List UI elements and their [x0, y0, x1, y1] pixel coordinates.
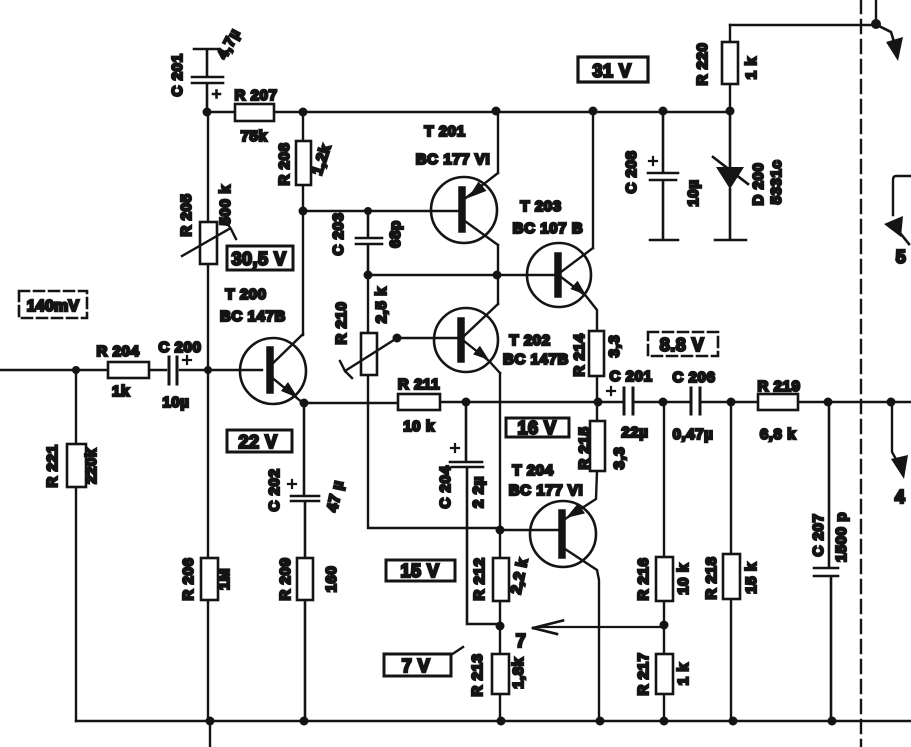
capacitor C201 series [624, 388, 633, 414]
node output C207 [824, 398, 833, 407]
resistor R215 [596, 402, 598, 421]
resistor R206 [201, 558, 218, 600]
svg-text:R 207: R 207 [234, 87, 277, 104]
resistor R219 [758, 394, 798, 410]
capacitor C203 [356, 211, 382, 275]
node R216 R217 [660, 621, 669, 630]
arrow output 4 off-page [892, 402, 897, 461]
node input junction [72, 366, 80, 374]
node top right [871, 19, 881, 29]
resistor R205 (variable) [200, 222, 217, 264]
resistor R218 [723, 554, 740, 599]
svg-text:31 V: 31 V [592, 61, 631, 81]
node base T200 [204, 366, 212, 374]
svg-text:T 200: T 200 [225, 286, 266, 303]
svg-text:C 201: C 201 [169, 53, 186, 96]
svg-text:R 212: R 212 [471, 557, 488, 600]
wire R216 R217 chain [663, 402, 665, 721]
wire ground stub below rail [209, 721, 211, 747]
resistor R204 [108, 362, 149, 378]
arrow 5 off-page [893, 176, 911, 215]
svg-text:R 211: R 211 [398, 376, 440, 393]
node T200 emitter [300, 399, 309, 408]
svg-text:C 204: C 204 [437, 465, 454, 508]
node ground dots [206, 717, 837, 726]
wire input line [0, 369, 262, 371]
svg-text:220k: 220k [83, 448, 100, 484]
svg-text:C 208: C 208 [623, 150, 640, 193]
transistor T202 [434, 308, 498, 372]
wire R218 [730, 402, 732, 721]
svg-text:BC 147B: BC 147B [503, 351, 569, 368]
label box 22V [227, 430, 292, 452]
svg-text:R 208: R 208 [276, 142, 293, 185]
arrow node 7 [540, 626, 664, 628]
svg-text:BC 177 VI: BC 177 VI [509, 482, 584, 499]
svg-text:R 219: R 219 [757, 378, 800, 395]
node R210 wiper [393, 334, 402, 343]
transistor T201 [431, 177, 497, 243]
svg-text:10 k: 10 k [675, 563, 692, 595]
wire top right [730, 0, 876, 25]
svg-text:R 210: R 210 [333, 301, 350, 344]
svg-text:4: 4 [895, 487, 906, 507]
capacitor C204 [450, 402, 500, 624]
wire R210 chain [368, 275, 500, 528]
svg-text:22 V: 22 V [238, 432, 277, 452]
svg-text:10µ: 10µ [685, 179, 702, 206]
svg-text:1,8k: 1,8k [510, 657, 527, 689]
svg-text:R 205: R 205 [178, 193, 195, 236]
label box 7V [384, 654, 451, 676]
svg-text:140mV: 140mV [27, 298, 80, 315]
ground rail (bottom) [76, 720, 911, 722]
wire output line [304, 402, 911, 403]
node C201 bottom [203, 108, 212, 117]
label box 30,5V [227, 246, 293, 270]
arrow top right off-page [877, 25, 895, 45]
capacitor C206 [691, 388, 700, 414]
label box 140mV [19, 291, 87, 318]
label box 8.8V [648, 332, 718, 356]
node C206 right [727, 398, 736, 407]
node C201s-C206 junction [659, 398, 668, 407]
node D200 rail [726, 107, 735, 116]
svg-text:5331c: 5331c [768, 160, 785, 205]
transistor T203 [527, 243, 591, 307]
node T203 collector rail [589, 107, 598, 116]
svg-text:1k: 1k [112, 383, 130, 400]
svg-text:2 2µ: 2 2µ [470, 476, 487, 508]
svg-text:15 k: 15 k [743, 562, 760, 594]
resistor R207 [235, 104, 274, 121]
resistor R221 [67, 444, 86, 487]
dashed boundary line [860, 0, 862, 747]
svg-text:5: 5 [896, 247, 907, 267]
wire T201 base line [303, 210, 460, 212]
svg-text:R 217: R 217 [635, 652, 652, 695]
wire R221 drop to ground rail [75, 370, 77, 721]
svg-text:1M: 1M [216, 568, 233, 590]
svg-text:15 V: 15 V [400, 561, 439, 581]
label box 31V [578, 57, 648, 82]
node R208 top [299, 108, 308, 117]
svg-text:16 V: 16 V [517, 418, 556, 438]
svg-text:T 203: T 203 [520, 198, 561, 215]
svg-text:R 214: R 214 [571, 333, 588, 376]
capacitor C202 [291, 403, 319, 721]
node C208 rail [659, 107, 668, 116]
label box 15V [386, 560, 455, 581]
capacitor C208 [648, 111, 678, 240]
resistor R210 (variable) [361, 333, 377, 375]
label box 16V [506, 418, 569, 437]
capacitor C201 top [192, 49, 223, 112]
svg-text:R 220: R 220 [694, 42, 711, 85]
svg-text:1 k: 1 k [743, 57, 760, 80]
svg-text:1 k: 1 k [675, 663, 692, 686]
svg-text:30,5 V: 30,5 V [231, 249, 286, 269]
node R208 bottom [299, 207, 308, 216]
wire T204 base chain [500, 402, 560, 626]
resistor R217 [656, 654, 673, 694]
wire T202 base [397, 337, 458, 339]
svg-text:R 206: R 206 [180, 557, 197, 600]
svg-text:68p: 68p [387, 220, 404, 248]
svg-text:BC 147B: BC 147B [220, 308, 286, 325]
svg-text:R 209: R 209 [277, 557, 294, 600]
svg-text:R 218: R 218 [703, 556, 720, 599]
svg-text:C 200: C 200 [158, 339, 201, 356]
svg-text:C 206: C 206 [672, 369, 715, 386]
wire T203 base line [368, 274, 556, 276]
node output right [887, 398, 896, 407]
wire base node to R206 and ground [207, 370, 209, 721]
svg-text:3,3: 3,3 [606, 335, 623, 358]
svg-text:7: 7 [516, 631, 527, 651]
svg-text:T 202: T 202 [509, 332, 550, 349]
resistor R209 [297, 558, 313, 600]
resistor R211 [398, 394, 440, 410]
capacitor C207 [814, 402, 838, 721]
svg-text:R 216: R 216 [635, 557, 652, 600]
wire 31V rail [207, 111, 730, 113]
capacitor C200 [169, 357, 177, 384]
svg-text:C 202: C 202 [266, 468, 283, 511]
transistor T200 [240, 338, 306, 404]
svg-text:7 V: 7 V [402, 656, 431, 676]
svg-text:1500 p: 1500 p [833, 512, 850, 562]
svg-text:C 203: C 203 [330, 212, 347, 255]
svg-text:T 204: T 204 [512, 462, 553, 479]
svg-text:R 213: R 213 [469, 653, 486, 696]
svg-text:10µ: 10µ [162, 394, 189, 411]
resistor R212 [493, 558, 509, 601]
svg-text:R 215: R 215 [576, 426, 593, 469]
svg-text:T 201: T 201 [424, 123, 465, 140]
resistor R220 [729, 25, 731, 111]
transistor T204 [530, 501, 596, 567]
node T201 collector [493, 271, 502, 280]
resistor R213 [499, 626, 501, 721]
svg-text:3,3: 3,3 [611, 447, 628, 470]
svg-text:6,8 k: 6,8 k [760, 426, 796, 443]
svg-text:8.8 V: 8.8 V [660, 335, 705, 355]
svg-text:BC 107 B: BC 107 B [513, 220, 584, 237]
svg-text:160: 160 [323, 566, 340, 593]
svg-text:75k: 75k [241, 128, 268, 145]
node C204 top [462, 398, 471, 407]
node C203 top [364, 207, 372, 215]
svg-text:10 k: 10 k [403, 418, 435, 435]
resistor R208 [302, 112, 304, 211]
node C [496, 622, 505, 631]
svg-text:R 221: R 221 [44, 444, 61, 487]
svg-text:C 201: C 201 [609, 368, 652, 385]
svg-text:2,5 k: 2,5 k [373, 287, 390, 323]
svg-text:D 200: D 200 [750, 162, 767, 205]
node T204 base [496, 526, 505, 535]
svg-text:0,47µ: 0,47µ [673, 426, 714, 443]
svg-text:BC 177 VI: BC 177 VI [416, 151, 491, 168]
resistor R216 [656, 557, 673, 601]
node R214 bottom [594, 398, 603, 407]
diode D200 [715, 111, 746, 240]
svg-text:C 207: C 207 [810, 513, 827, 556]
resistor R214 [596, 376, 598, 402]
svg-text:500 k: 500 k [217, 185, 234, 226]
node T201 emitter rail [492, 107, 501, 116]
node C203 bottom [364, 271, 373, 280]
svg-text:R 204: R 204 [96, 343, 139, 360]
svg-text:22µ: 22µ [621, 424, 648, 441]
wire R205 chain from rail to base node [207, 112, 209, 370]
